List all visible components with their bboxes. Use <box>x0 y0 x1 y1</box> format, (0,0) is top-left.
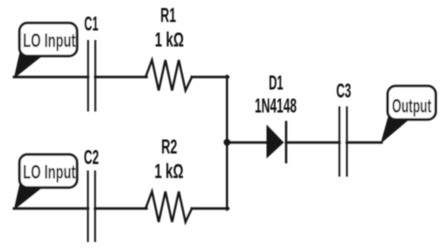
wire: bottom branch, input tail to C2 left plate <box>14 207 88 210</box>
callout LO Input (top) bubble <box>20 23 78 56</box>
wire: diode cathode to C3 left plate <box>286 141 339 144</box>
resistor R2 <box>146 192 192 223</box>
node: junction dot <box>224 139 231 146</box>
wire: vertical bus joining both branches <box>226 76 228 210</box>
svg-text:Output: Output <box>392 97 432 118</box>
diode D1 <box>267 122 287 162</box>
callout Output tail <box>381 117 413 144</box>
resistor R1 <box>146 60 192 91</box>
wire: bottom branch, C2 right plate to R2 <box>95 207 146 210</box>
wire: bottom branch, R2 to bus corner <box>192 207 228 210</box>
callout LO Input (top) tail <box>14 53 46 79</box>
svg-text:1 kΩ: 1 kΩ <box>155 161 184 183</box>
svg-text:R1: R1 <box>160 5 176 27</box>
wire: top branch, C1 right plate to R1 <box>95 76 146 79</box>
svg-text:R2: R2 <box>161 137 177 159</box>
capacitor C2 <box>88 172 95 242</box>
wire: top branch, R1 to bus corner <box>192 76 228 79</box>
wire: node to diode anode <box>227 141 268 144</box>
svg-text:LO Input: LO Input <box>23 163 76 184</box>
callout LO Input (bottom) bubble <box>20 155 78 188</box>
svg-text:C3: C3 <box>336 81 351 103</box>
capacitor C1 <box>88 41 95 111</box>
svg-text:D1: D1 <box>269 72 284 94</box>
capacitor C3 <box>339 107 347 175</box>
svg-text:C2: C2 <box>84 147 99 169</box>
svg-text:C1: C1 <box>84 13 98 35</box>
svg-text:1N4148: 1N4148 <box>255 96 297 118</box>
wire: top branch, input tail to C1 left plate <box>14 76 88 79</box>
callout LO Input (bottom) tail <box>14 185 46 211</box>
callout Output bubble <box>388 86 436 120</box>
wire: C3 right plate to output tail <box>347 141 382 144</box>
svg-text:1 kΩ: 1 kΩ <box>155 29 184 51</box>
svg-text:LO Input: LO Input <box>23 31 76 52</box>
